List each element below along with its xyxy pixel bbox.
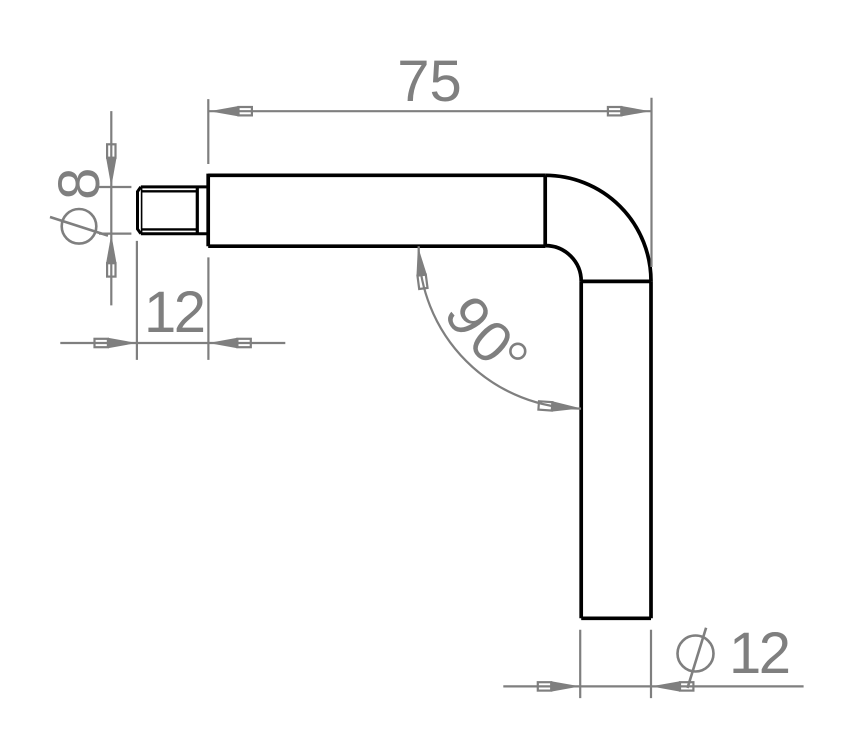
75 extension line right (650, 98, 652, 267)
vertical rod bottom edge (581, 616, 651, 620)
rod top edge (208, 173, 545, 177)
12 extension line right (207, 257, 209, 360)
12 dimension line (60, 342, 285, 344)
d8 arrow top (106, 144, 116, 186)
svg-text:75: 75 (397, 49, 462, 114)
thread end line (196, 187, 199, 234)
d8 diameter symbol (62, 209, 97, 244)
vertical rod right edge (649, 281, 653, 618)
75 dimension line (208, 110, 651, 112)
d12 diameter symbol (678, 636, 714, 672)
90 text degree symbol (510, 344, 525, 359)
12 arrow right (208, 338, 250, 348)
bend outer arc (545, 175, 651, 281)
bend start tangent line (543, 175, 547, 246)
90 arrow bottom (538, 400, 581, 413)
stub left end with chamfer (138, 187, 141, 234)
stub outer bottom edge (141, 232, 208, 235)
d8 extension line top (99, 186, 131, 188)
d8 arrow bottom (106, 234, 116, 276)
75 arrow left (210, 106, 252, 116)
bend end tangent line (581, 280, 651, 284)
chamfer line (141, 187, 143, 234)
d12 extension line right (650, 630, 652, 698)
thread minor line bottom (142, 228, 198, 230)
bend inner arc (545, 246, 581, 282)
d12 arrow right (651, 681, 693, 691)
vertical rod left edge (579, 281, 583, 618)
thread minor line top (142, 190, 198, 192)
svg-text:12: 12 (729, 621, 789, 686)
d8 dimension line (110, 111, 112, 305)
stub outer top edge (141, 185, 208, 188)
d12 extension line left (579, 630, 581, 698)
75 arrow right (608, 106, 650, 116)
d8 extension line bottom (99, 233, 131, 235)
90 arrow top (413, 246, 429, 289)
d12 arrow left (538, 681, 580, 691)
12 extension line left (136, 241, 138, 360)
svg-text:12: 12 (144, 280, 204, 345)
d8 text group rotated (47, 168, 112, 244)
75 extension line left (207, 99, 209, 164)
90 arc (419, 246, 581, 408)
d12 dimension line (503, 685, 803, 687)
svg-text:8: 8 (47, 168, 112, 200)
12 arrow left (94, 338, 136, 348)
rod bottom edge (208, 244, 545, 248)
rod left face (206, 174, 210, 247)
